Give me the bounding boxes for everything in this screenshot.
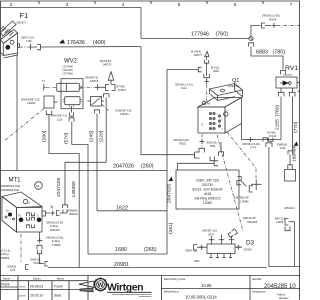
Wirtgen logo mark xyxy=(93,277,107,291)
svg-text:26.03.10: 26.03.10 xyxy=(30,294,43,298)
wire 177946 (760) xyxy=(141,38,249,40)
svg-text:Wirtgen: Wirtgen xyxy=(107,281,143,293)
valve block WV2 xyxy=(57,59,83,109)
pin pair glyphs inside MT1 xyxy=(27,213,35,229)
wire up to plug xyxy=(251,26,261,37)
wire 6883 (780) xyxy=(251,47,283,70)
svg-text:5: 5 xyxy=(178,2,181,8)
component 168489 box xyxy=(285,170,296,182)
svg-text:176436: 176436 xyxy=(67,40,85,46)
svg-text:EWR18L: EWR18L xyxy=(277,142,288,146)
column numbers xyxy=(10,2,293,8)
svg-text:176830: 176830 xyxy=(52,243,61,247)
wire 2047028 to MT1 X xyxy=(65,162,106,204)
RV1 stub to sheet edge xyxy=(297,82,300,84)
svg-text:1116: 1116 xyxy=(280,146,286,150)
svg-text:168489: 168489 xyxy=(292,145,298,162)
svg-text:G8W7-16L: G8W7-16L xyxy=(185,249,198,253)
wire 1622 xyxy=(97,210,167,212)
svg-text:(780): (780) xyxy=(273,49,286,55)
svg-text:(1000KN): (1000KN) xyxy=(283,75,293,77)
svg-text:EWG13L: EWG13L xyxy=(207,141,218,145)
svg-text:2047025: 2047025 xyxy=(167,184,173,203)
svg-text:95021: 95021 xyxy=(179,142,187,146)
RV1 bottom pins xyxy=(279,92,285,97)
MT1 bottom wiring xyxy=(20,234,22,262)
svg-text:1114: 1114 xyxy=(181,86,187,90)
svg-text:2155 (760): 2155 (760) xyxy=(274,105,280,130)
wire 2047026 (260) xyxy=(0,170,167,172)
svg-text:Pa: Pa xyxy=(207,102,211,106)
svg-text:F1: F1 xyxy=(20,11,29,20)
svg-text:96451S: 96451S xyxy=(69,212,78,216)
svg-text:(770): (770) xyxy=(293,121,299,133)
svg-text:10.05.0001-0214: 10.05.0001-0214 xyxy=(185,294,217,299)
node connector circle xyxy=(249,36,253,40)
wire Q1 right to relay column xyxy=(242,124,282,140)
dash diagonal to MT1 area xyxy=(4,109,44,142)
node T1 pilot pin xyxy=(42,79,57,91)
svg-text:2x8FL 3/8″-16S: 2x8FL 3/8″-16S xyxy=(196,179,219,183)
sender box 142001 xyxy=(44,96,54,108)
svg-text:1622: 1622 xyxy=(116,205,128,211)
svg-text:Q1: Q1 xyxy=(232,78,239,84)
wire from connector to bus xyxy=(167,70,198,255)
svg-text:20981: 20981 xyxy=(114,262,129,268)
svg-text:(280): (280) xyxy=(42,130,48,142)
svg-text:104514: 104514 xyxy=(90,79,99,83)
svg-text:2047026: 2047026 xyxy=(113,164,134,170)
boxed note 2x8FL xyxy=(176,170,239,209)
svg-text:Frank: Frank xyxy=(54,285,63,289)
svg-text:EWY3E5-45°: EWY3E5-45° xyxy=(234,196,249,200)
svg-text:advanc: advanc xyxy=(279,296,289,300)
svg-text:G8V32x1: G8V32x1 xyxy=(284,206,295,210)
wire 1680 (265) xyxy=(88,253,167,255)
svg-text:Saal: Saal xyxy=(54,294,61,298)
svg-text:(8: (8 xyxy=(298,89,301,93)
wire 2155 (760) xyxy=(280,97,282,140)
mechanical dash-dot diagonals from Q1 xyxy=(227,132,256,178)
svg-text:176F: 176F xyxy=(26,39,32,43)
fuse F1 down wire xyxy=(16,55,18,170)
svg-text:13000: 13000 xyxy=(203,201,212,205)
svg-text:G8VL8x1.5-8S: G8VL8x1.5-8S xyxy=(46,221,63,225)
net label 2047025 rotated xyxy=(167,184,173,203)
svg-text:D-Ring: D-Ring xyxy=(50,224,59,228)
svg-text:G8VL8x1.5-11L: G8VL8x1.5-11L xyxy=(46,236,65,240)
svg-text:174886: 174886 xyxy=(240,200,249,204)
wire label (261) rotated xyxy=(168,222,174,234)
svg-text:6: 6 xyxy=(234,2,237,8)
svg-text:1776: 1776 xyxy=(10,268,16,272)
pressure switch symbol xyxy=(88,97,105,107)
svg-text:Frank: Frank xyxy=(1,283,10,287)
mechanical dash-dot into Q1 xyxy=(205,79,210,84)
svg-text:(114135): (114135) xyxy=(63,68,73,72)
svg-text:3929: 3929 xyxy=(213,69,219,73)
svg-text:8xZy1.-1uhr.M18x30: 8xZy1.-1uhr.M18x30 xyxy=(192,188,222,192)
title block top line xyxy=(0,275,300,277)
connector pin into RV1 xyxy=(281,71,286,75)
svg-text:142001: 142001 xyxy=(27,101,36,105)
wire to note box xyxy=(178,163,215,170)
drop wire from splice row to bottom rail xyxy=(266,143,272,148)
net label 139355 rotated xyxy=(71,181,77,198)
svg-text:D-Ring: D-Ring xyxy=(52,239,61,243)
socket under node xyxy=(249,43,254,47)
svg-text:D3: D3 xyxy=(246,239,255,246)
title block left revision table xyxy=(0,276,88,300)
svg-text:2047028: 2047028 xyxy=(56,178,62,197)
revision table text xyxy=(1,276,64,297)
svg-text:(177940): (177940) xyxy=(63,72,74,76)
ignition switch Q1 xyxy=(198,78,243,133)
svg-text:05.08.03: 05.08.03 xyxy=(30,285,43,289)
wire drop at x141 xyxy=(140,8,142,39)
svg-text:(97I92): (97I92) xyxy=(244,248,252,252)
svg-text:(400): (400) xyxy=(93,40,106,46)
wire drop x141 to Q1 feed xyxy=(141,47,195,155)
svg-text:BGWS3/8″-12S: BGWS3/8″-12S xyxy=(22,98,40,102)
key housing block on top xyxy=(210,84,243,96)
svg-text:G8V5/8″-8L: G8V5/8″-8L xyxy=(85,76,99,80)
svg-text:ELV11L: ELV11L xyxy=(211,66,220,70)
Wirtgen logo text xyxy=(107,281,152,296)
svg-text:(260): (260) xyxy=(141,164,154,170)
svg-text:ELV16L: ELV16L xyxy=(267,131,277,135)
svg-text:2774: 2774 xyxy=(250,146,256,150)
svg-text:(261): (261) xyxy=(168,222,174,234)
net label 2047028 rotated xyxy=(56,178,62,197)
svg-text:EWW8S: EWW8S xyxy=(68,209,78,213)
svg-text:(245): (245) xyxy=(89,130,95,142)
svg-text:ETY8S: ETY8S xyxy=(117,85,125,89)
svg-text:Identität: Identität xyxy=(252,277,262,281)
svg-text:WV2: WV2 xyxy=(64,59,78,65)
wire top rail from left edge xyxy=(0,7,141,9)
svg-text:(20628I6)4-Rad: (20628I6)4-Rad xyxy=(1,188,20,192)
svg-text:2875: 2875 xyxy=(208,232,214,236)
svg-text:177946: 177946 xyxy=(191,31,209,37)
svg-text:3547: 3547 xyxy=(194,259,200,263)
svg-text:(220): (220) xyxy=(99,130,105,142)
svg-text:(20638A0)3-Rad: (20638A0)3-Rad xyxy=(1,184,21,188)
svg-text:148770: 148770 xyxy=(103,63,112,67)
svg-text:142001: 142001 xyxy=(120,112,129,116)
svg-text:IxB-Ring Ø25x3.5: IxB-Ring Ø25x3.5 xyxy=(194,197,220,201)
connector pair G8V13/8-12L below WV2, wire (570) xyxy=(69,118,74,122)
title block middle section xyxy=(162,276,301,300)
svg-text:(570): (570) xyxy=(64,132,70,144)
svg-text:2045285 10: 2045285 10 xyxy=(264,284,296,290)
net flag ETY8S 144617 xyxy=(108,72,114,85)
svg-text:10.85: 10.85 xyxy=(201,283,212,288)
svg-text:(265): (265) xyxy=(144,247,157,253)
svg-text:RV1: RV1 xyxy=(285,65,298,72)
svg-text:144617: 144617 xyxy=(118,88,127,92)
svg-text:7836: 7836 xyxy=(210,144,216,148)
svg-text:Designation: Designation xyxy=(252,290,266,294)
svg-text:D-Ring: D-Ring xyxy=(1,252,10,256)
svg-text:40144: 40144 xyxy=(269,18,277,22)
svg-text:EWY121: EWY121 xyxy=(275,217,286,221)
svg-text:M.VW.8L: M.VW.8L xyxy=(191,50,202,54)
svg-text:303730: 303730 xyxy=(202,183,213,187)
svg-text:6883: 6883 xyxy=(256,49,268,55)
svg-text:148777: 148777 xyxy=(194,53,203,57)
connector above note box xyxy=(220,142,222,152)
svg-text:x1.5-12L: x1.5-12L xyxy=(1,249,12,253)
svg-text:(177946): (177946) xyxy=(63,65,74,69)
terminal pins grid xyxy=(210,113,220,129)
svg-text:c: c xyxy=(217,124,218,126)
svg-text:G8V33x2-22L: G8V33x2-22L xyxy=(173,138,190,142)
svg-text:Datum: Datum xyxy=(33,276,41,280)
svg-text:G8V33x1.5-10L: G8V33x1.5-10L xyxy=(242,142,261,146)
svg-text:G8V13/8″-12L: G8V13/8″-12L xyxy=(51,114,68,118)
svg-text:Beschriftung Code: Beschriftung Code xyxy=(164,277,186,281)
svg-text:7: 7 xyxy=(290,2,293,8)
plug G8V26x1.3-26L 40144 xyxy=(262,23,266,28)
svg-text:2062157: 2062157 xyxy=(50,228,61,232)
svg-text:206489: 206489 xyxy=(1,256,10,260)
svg-text:61: 61 xyxy=(36,184,40,188)
svg-text:(760): (760) xyxy=(216,31,229,37)
svg-text:EWA25: EWA25 xyxy=(8,265,17,269)
svg-text:EWL25-45°: EWL25-45° xyxy=(243,216,256,220)
socket below pressure switch, wire (245) xyxy=(95,110,100,114)
svg-text:-0GWS/8″-13S: -0GWS/8″-13S xyxy=(115,109,132,113)
svg-text:G8V26x1.3-26L: G8V26x1.3-26L xyxy=(262,14,281,18)
svg-text:Name: Name xyxy=(3,276,10,280)
svg-text:(90197): (90197) xyxy=(17,21,26,25)
svg-text:W: W xyxy=(98,283,104,289)
svg-text:1680: 1680 xyxy=(115,247,127,253)
wire 20981 xyxy=(48,267,267,269)
svg-text:Name: Name xyxy=(57,276,64,280)
fuse F1 xyxy=(0,11,28,58)
wire 176436 (400) xyxy=(41,46,142,49)
main body iso box xyxy=(198,98,242,108)
svg-text:4418: 4418 xyxy=(204,192,212,196)
svg-text:G8V18x1.5-13L: G8V18x1.5-13L xyxy=(175,83,194,87)
net label 168489 rotated xyxy=(292,145,298,162)
svg-text:1116: 1116 xyxy=(57,117,63,121)
svg-text:bom: bom xyxy=(20,285,26,289)
svg-text:d: d xyxy=(222,129,223,131)
wire (770) xyxy=(292,97,294,151)
svg-text:3046008: 3046008 xyxy=(247,220,258,224)
column tick marks xyxy=(39,1,263,4)
svg-text:G8V3/8″-11S: G8V3/8″-11S xyxy=(202,229,217,233)
svg-text:G8V17-10L: G8V17-10L xyxy=(21,36,35,40)
svg-text:M(VW.8S: M(VW.8S xyxy=(100,59,111,63)
svg-text:139355: 139355 xyxy=(71,181,77,198)
svg-text:Beschriftung: Beschriftung xyxy=(164,290,179,294)
motor MT1 xyxy=(1,178,46,233)
svg-text:pom: pom xyxy=(20,294,26,298)
svg-text:31428: 31428 xyxy=(276,220,284,224)
dash-dot wire to sheet edge xyxy=(277,25,300,27)
socket below, wire (220) xyxy=(104,94,110,98)
first-angle projection symbol xyxy=(79,281,94,292)
splice cross xyxy=(272,23,277,28)
svg-text:MT1: MT1 xyxy=(9,178,22,184)
